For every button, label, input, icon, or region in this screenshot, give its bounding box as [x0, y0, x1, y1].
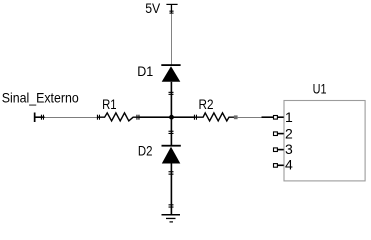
- svg-text:D2: D2: [138, 142, 153, 158]
- diode D2: [162, 117, 181, 214]
- wire handle square: [234, 115, 238, 119]
- IC U1: [284, 101, 365, 181]
- svg-text:D1: D1: [137, 63, 153, 79]
- terminal Sinal_Externo: [34, 113, 45, 123]
- diode D1: [161, 64, 180, 117]
- power terminal 5V: [166, 4, 177, 14]
- ground: [162, 204, 181, 222]
- svg-text:R1: R1: [102, 96, 117, 112]
- svg-text:Sinal_Externo: Sinal_Externo: [2, 90, 79, 106]
- resistor R1: [97, 113, 140, 121]
- wire node to R2: [172, 116, 195, 118]
- svg-text:R2: R2: [199, 96, 214, 112]
- svg-text:2: 2: [285, 126, 293, 142]
- wire R1 to node: [140, 116, 172, 118]
- svg-text:U1: U1: [313, 80, 327, 96]
- resistor R2: [194, 113, 236, 121]
- wire 5V to D1: [171, 14, 173, 65]
- node junction: [169, 115, 174, 120]
- svg-text:3: 3: [285, 141, 293, 157]
- svg-text:1: 1: [285, 109, 293, 125]
- svg-text:4: 4: [285, 156, 293, 172]
- svg-text:5V: 5V: [145, 0, 161, 16]
- wire R2 to U1: [238, 117, 262, 119]
- pin 1: [274, 116, 284, 120]
- pin 2: [274, 132, 284, 136]
- wire to pin 1: [262, 116, 274, 118]
- pin 3: [274, 148, 284, 152]
- pin 4: [274, 164, 284, 168]
- wire terminal to R1: [45, 117, 98, 119]
